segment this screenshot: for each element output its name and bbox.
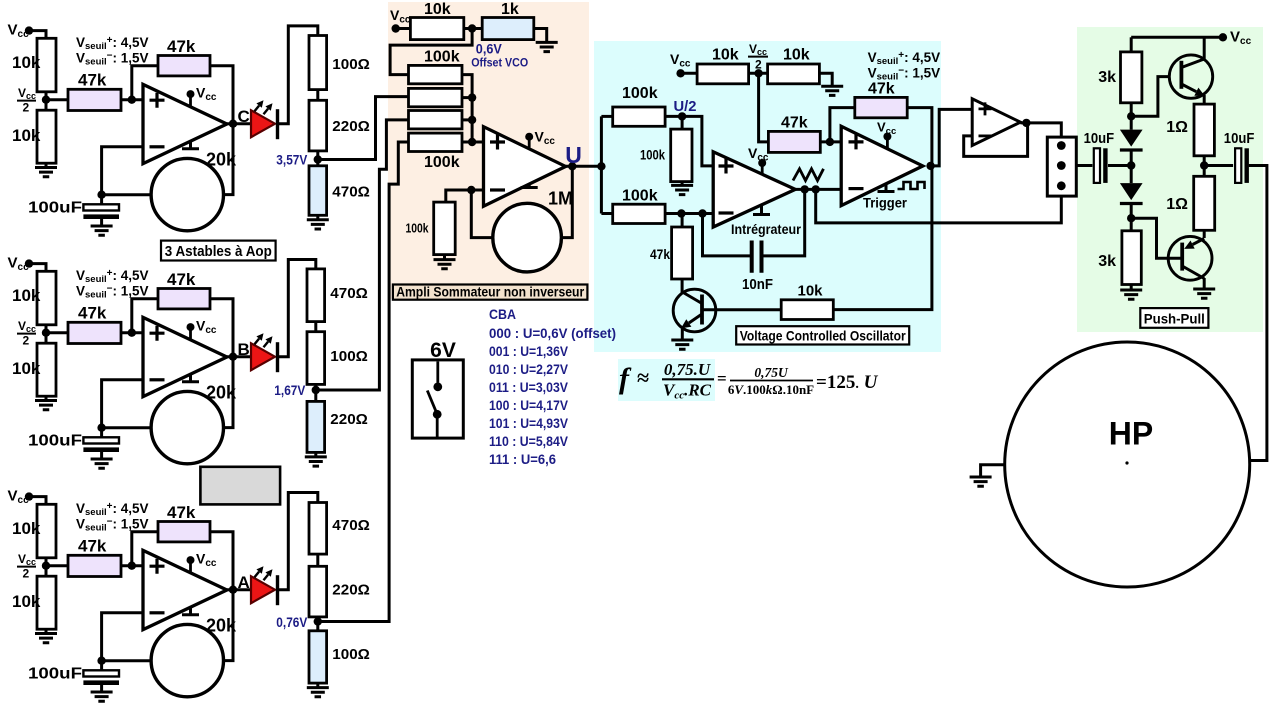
wire potentiometer to output (astable A): [224, 590, 234, 661]
svg-text:10uF: 10uF: [1084, 131, 1115, 147]
resistor 1 ohm upper: [1194, 104, 1214, 156]
wire selector to coupling capacitor: [1076, 164, 1092, 167]
selector pin triangle: [1057, 181, 1066, 190]
potentiometer 20k (astable C): [151, 158, 223, 230]
ladder wire segment (3,57V): [316, 90, 319, 101]
ground below VCO transistor: [671, 340, 693, 349]
ladder wire segment (3,57V): [316, 151, 319, 166]
wire output to LED (astable C): [227, 122, 251, 125]
svg-text:Intrégrateur: Intrégrateur: [731, 221, 801, 237]
wire U/2 to + input: [665, 116, 713, 165]
svg-text:0,75U: 0,75U: [754, 365, 789, 380]
svg-text:Offset VCO: Offset VCO: [471, 56, 528, 70]
svg-text:470Ω: 470Ω: [332, 184, 370, 201]
svg-text:Vcc: Vcc: [196, 85, 217, 104]
op-amp Vcc pin (astable C): [189, 94, 192, 106]
wire 10k to ground (trigger): [819, 73, 832, 86]
diode D1 bias: [1120, 130, 1143, 147]
VCO input node: [597, 162, 605, 170]
feedback wire to output (astable C): [210, 66, 233, 124]
svg-text:100k: 100k: [640, 147, 665, 163]
label box: 3 Astables a Aop: [161, 241, 276, 261]
ground below Q2: [1193, 289, 1215, 298]
ground below ladder (0,76V): [316, 683, 319, 688]
svg-text:3k: 3k: [1098, 253, 1116, 270]
transistor Q1 NPN (push): [1169, 55, 1212, 98]
op-amp summing amplifier: [484, 127, 566, 207]
resistor 47k hysteresis: [855, 97, 907, 117]
bias node upper dot: [1127, 112, 1135, 120]
svg-text:100 : U=4,17V: 100 : U=4,17V: [489, 398, 569, 413]
svg-text:3 Astables à Aop: 3 Astables à Aop: [165, 243, 272, 260]
resistor 470Ω (1,67V ladder): [307, 269, 325, 322]
resistor 1k offset divider: [482, 18, 534, 40]
Vcc terminal dot (astable A): [25, 492, 33, 500]
region background: Push-Pull (light green): [1077, 27, 1263, 332]
wire 1,67V to summing bus: [316, 120, 409, 390]
op-amp Vcc pin (sommateur): [528, 137, 531, 148]
Vcc terminal dot (sommateur): [392, 24, 400, 32]
svg-text:2: 2: [23, 334, 30, 348]
Vcc terminal dot (push-pull): [1219, 33, 1227, 41]
wire LED to ladder top (3,57V): [278, 26, 318, 124]
push-pull output node dot: [1200, 161, 1208, 169]
svg-text:470Ω: 470Ω: [330, 285, 368, 302]
wire output to LED (astable B): [227, 355, 251, 358]
resistor 47k input (astable C): [46, 98, 68, 101]
node U output: [568, 162, 576, 170]
diode mid node dot: [1127, 161, 1135, 169]
svg-text:=125. U: =125. U: [816, 372, 879, 393]
capacitor 100uF (astable A): [100, 661, 103, 671]
junction dot capacitor right leg: [801, 185, 809, 193]
resistor 47k VCO current leg: [681, 214, 684, 228]
wire 47k to op-amp + (astable C): [121, 98, 143, 101]
wire integrator output to selector: [816, 186, 1062, 223]
wire Vcc to divider (astable B): [29, 264, 46, 272]
ground below 100k (U/2): [681, 182, 684, 186]
op-amp integrator: [713, 152, 795, 227]
resistor 3k upper bias: [1121, 52, 1142, 103]
potentiometer 1M feedback: [493, 203, 562, 272]
feedback junction dot (sommateur): [467, 186, 475, 194]
wire - input to potentiometer 1M: [471, 190, 493, 238]
svg-text:0,75.U: 0,75.U: [664, 360, 711, 379]
node U/2: [678, 112, 686, 120]
resistor 100k to ground (sommateur): [434, 202, 456, 255]
square wave symbol: [898, 182, 925, 189]
svg-text:2: 2: [23, 101, 30, 115]
wire LED to ladder top (1,67V): [278, 260, 316, 357]
junction dot capacitor leg: [698, 209, 706, 217]
resistor 100Ω (1,67V ladder): [307, 332, 325, 385]
resistor 3k lower bias: [1122, 231, 1141, 285]
svg-text:Vseuil+: 4,5V: Vseuil+: 4,5V: [76, 35, 149, 52]
ladder wire segment (1,67V): [314, 384, 317, 401]
op-amp comparator (astable C): [143, 84, 227, 163]
svg-text:100k: 100k: [622, 85, 658, 102]
svg-text:111 : U=6,6: 111 : U=6,6: [489, 452, 556, 467]
buffer feedback wire: [964, 123, 1028, 156]
svg-text:Vcc: Vcc: [18, 552, 36, 567]
op-amp ground pin (astable B): [182, 374, 199, 382]
op-amp Vcc pin (trigger): [886, 137, 889, 149]
wire 1k to ground: [534, 29, 547, 43]
wire divider middle (astable C): [45, 92, 48, 110]
svg-text:10nF: 10nF: [742, 276, 773, 293]
op-amp output node B: [229, 353, 237, 361]
wire output node to capacitor: [1204, 164, 1233, 167]
resistor 10k lower divider (astable A): [37, 576, 56, 629]
VCO input bus: [600, 116, 603, 213]
svg-text:6V.100kΩ.10nF: 6V.100kΩ.10nF: [728, 382, 814, 397]
resistor 470Ω (3,57V ladder): [309, 166, 327, 216]
svg-text:Vseuil+: 4,5V: Vseuil+: 4,5V: [76, 268, 149, 285]
wire Q1 emitter to 1ohm: [1203, 95, 1206, 104]
svg-text:10k: 10k: [798, 283, 824, 300]
wire - input to RC node (astable B): [102, 380, 143, 428]
svg-text:0,76V: 0,76V: [276, 615, 307, 630]
svg-text:1Ω: 1Ω: [1166, 196, 1188, 213]
junction dot bus 4: [468, 138, 476, 146]
svg-text:100Ω: 100Ω: [332, 56, 370, 73]
wire 100k to - input (integrator): [665, 212, 713, 215]
triangle wave symbol: [793, 169, 824, 181]
op-amp output node C: [229, 120, 237, 128]
RC node dot (astable C): [97, 191, 105, 199]
label box: Ampli Sommateur non inverseur: [393, 285, 588, 300]
op-amp ground pin (sommateur): [521, 184, 538, 188]
svg-text:10k: 10k: [424, 1, 451, 18]
diode D2 bias: [1120, 183, 1143, 200]
svg-text:HP: HP: [1109, 416, 1153, 452]
resistor 220Ω (0,76V ladder): [309, 566, 327, 617]
feedback wire up (astable C): [132, 66, 158, 100]
summing bus wires: [462, 75, 484, 142]
wire integrator output to trigger -: [795, 188, 841, 191]
svg-text:47k: 47k: [167, 270, 196, 289]
resistor 100k summing input 2: [409, 88, 463, 106]
svg-text:10uF: 10uF: [1224, 131, 1255, 147]
op-amp ground pin (trigger): [878, 184, 895, 192]
svg-text:100k: 100k: [424, 49, 460, 66]
ladder wire segment (0,76V): [316, 554, 319, 566]
wire 47k to op-amp + (astable A): [121, 564, 143, 567]
svg-text:10k: 10k: [783, 47, 810, 64]
wire - input to 100k ground leg: [446, 190, 484, 202]
svg-text:101 : U=4,93V: 101 : U=4,93V: [489, 416, 569, 431]
wire bias node to Q2 base: [1131, 218, 1182, 258]
wire potentiometer to output (astable C): [224, 124, 234, 195]
ground below capacitor (astable A): [100, 685, 103, 692]
svg-text:001 : U=1,36V: 001 : U=1,36V: [489, 344, 569, 359]
wire transistor base to 10k: [702, 308, 781, 311]
resistor 10k VCO feedback: [781, 300, 833, 320]
resistor 470Ω (0,76V ladder): [309, 503, 327, 555]
svg-text:220Ω: 220Ω: [332, 118, 370, 135]
wire Q2 collector to ground: [1203, 278, 1206, 289]
svg-text:10k: 10k: [712, 47, 739, 64]
svg-text:110 : U=5,84V: 110 : U=5,84V: [489, 434, 569, 449]
node Vcc/2 (astable B): [42, 329, 50, 337]
svg-text:2: 2: [23, 567, 30, 581]
junction dot + input (astable C): [128, 96, 136, 104]
wire hysteresis 47k left leg: [830, 108, 855, 142]
node 0,76V: [314, 617, 322, 625]
junction dot bus 2: [468, 93, 476, 101]
ground below 3k lower: [1130, 285, 1133, 291]
svg-text:6V: 6V: [430, 339, 456, 362]
wire 47k to op-amp + (astable B): [121, 331, 143, 334]
svg-text:Vcc: Vcc: [18, 86, 36, 101]
svg-text:10k: 10k: [12, 592, 41, 611]
LED B: [251, 343, 275, 370]
wire Vcc to divider (astable A): [29, 497, 46, 505]
svg-text:220Ω: 220Ω: [332, 582, 370, 599]
potentiometer 20k (astable B): [151, 391, 223, 463]
resistor 100k VCO bottom: [613, 204, 665, 223]
svg-text:Vcc.RC: Vcc.RC: [663, 381, 712, 402]
capacitor 10uF output coupling: [1235, 148, 1241, 183]
transistor Q2 PNP (pull): [1168, 236, 1212, 280]
resistor 10k upper divider (astable C): [37, 38, 56, 92]
svg-text:470Ω: 470Ω: [332, 517, 370, 534]
wire Vcc to divider (astable C): [29, 31, 46, 39]
ground below ladder (1,67V): [314, 452, 317, 457]
svg-text:47k: 47k: [167, 37, 196, 56]
resistor 10k upper divider (astable A): [37, 504, 56, 558]
ladder wire segment (1,67V): [314, 322, 317, 332]
capacitor 10nF: [703, 214, 752, 256]
wire HP to ground: [981, 465, 1005, 477]
ground below divider (astable C): [45, 163, 48, 167]
svg-text:Trigger: Trigger: [863, 195, 907, 211]
svg-text:1,67V: 1,67V: [274, 383, 305, 398]
wire 0,76V to summing bus: [318, 142, 409, 622]
op-amp Vcc pin (integrator): [761, 163, 764, 174]
wire Vcc to Q1 collector: [1203, 37, 1206, 60]
wire Vcc to 10k (sommateur): [396, 27, 411, 30]
svg-text:000 : U=0,6V (offset): 000 : U=0,6V (offset): [489, 326, 616, 341]
svg-text:10k: 10k: [12, 126, 41, 145]
svg-text:47k: 47k: [78, 304, 107, 323]
svg-text:1M: 1M: [548, 189, 573, 209]
Vcc terminal dot (astable C): [25, 26, 33, 34]
junction dot 47k leg: [677, 209, 685, 217]
svg-text:100uF: 100uF: [28, 200, 82, 217]
resistor 100k summing input 3: [409, 111, 463, 129]
svg-text:1k: 1k: [501, 1, 519, 18]
LED A: [251, 576, 275, 603]
op-amp comparator (astable A): [143, 550, 227, 629]
LED C: [251, 110, 275, 137]
svg-text:47k: 47k: [78, 71, 107, 90]
wire 3k to diode chain: [1130, 103, 1133, 130]
svg-text:47k: 47k: [167, 503, 196, 522]
capacitor 100uF (astable C): [100, 195, 103, 205]
resistor 47k feedback (astable C): [158, 56, 210, 76]
svg-text:U/2: U/2: [674, 99, 697, 115]
feedback wire to output (astable B): [210, 299, 233, 357]
resistor 10k trigger divider left: [697, 64, 749, 84]
svg-text:1Ω: 1Ω: [1166, 119, 1188, 136]
Vcc terminal dot (trigger): [676, 69, 684, 77]
svg-text:Push-Pull: Push-Pull: [1144, 311, 1205, 327]
wire U to VCO input: [566, 165, 602, 168]
resistor 100k summing input 4: [409, 133, 463, 151]
wire potentiometer to U output: [561, 166, 572, 237]
node Vcc/2 (trigger): [754, 69, 762, 77]
region background: Ampli Sommateur (peach): [388, 2, 589, 299]
svg-text:100k: 100k: [622, 188, 658, 205]
trigger + junction dot: [826, 138, 834, 146]
svg-text:3k: 3k: [1098, 69, 1116, 86]
svg-text:Vcc: Vcc: [18, 319, 36, 334]
junction dot + input (astable A): [128, 562, 136, 570]
wire 10k to 1k: [464, 27, 482, 30]
svg-text:U: U: [565, 142, 582, 168]
wire trigger output to buffer +: [931, 109, 973, 165]
resistor 220Ω (1,67V ladder): [307, 401, 325, 452]
op-amp comparator (astable B): [143, 317, 227, 396]
svg-text:220Ω: 220Ω: [330, 411, 368, 428]
wire to 100k bottom: [601, 212, 612, 215]
op-amp ground pin (integrator): [753, 205, 770, 215]
label box: Push-Pull: [1140, 308, 1208, 328]
svg-text:0,6V: 0,6V: [476, 42, 502, 57]
switch symbol: [436, 362, 439, 383]
ground below divider (astable A): [45, 629, 48, 633]
op-amp Vcc pin (astable B): [189, 327, 192, 339]
wire buffer output to selector: [1020, 123, 1061, 146]
resistor 47k input (astable B): [46, 331, 68, 334]
svg-text:47k: 47k: [868, 81, 895, 98]
resistor 47k feedback (astable A): [158, 522, 210, 542]
ground below 10k (trigger): [821, 86, 843, 95]
resistor 47k input (astable A): [46, 564, 68, 567]
svg-text:Ampli Sommateur non inverseur: Ampli Sommateur non inverseur: [396, 285, 585, 300]
svg-text:3,57V: 3,57V: [276, 153, 307, 168]
wire node to potentiometer (astable C): [102, 193, 152, 196]
svg-text:010 : U=2,27V: 010 : U=2,27V: [489, 362, 569, 377]
op-amp trigger: [841, 126, 923, 205]
resistor 100Ω (0,76V ladder): [309, 631, 327, 683]
svg-text:=: =: [717, 369, 727, 388]
ground below ladder (3,57V): [316, 215, 319, 220]
resistor 47k trigger input: [768, 131, 820, 152]
wire Vcc/2 down to 47k input: [759, 73, 769, 142]
svg-text:47k: 47k: [78, 537, 107, 556]
RC node dot (astable B): [97, 424, 105, 432]
wire node to potentiometer (astable A): [102, 659, 152, 662]
trigger output node: [926, 162, 934, 170]
wire LED to ladder top (0,76V): [278, 493, 318, 590]
wire output to LED (astable A): [227, 588, 251, 591]
node 3,57V: [314, 155, 322, 163]
wire hysteresis 47k to output: [907, 108, 932, 166]
svg-text:100Ω: 100Ω: [330, 348, 368, 365]
svg-text:100k: 100k: [406, 221, 430, 236]
resistor 100Ω (3,57V ladder): [309, 36, 327, 90]
feedback wire up (astable B): [132, 299, 158, 333]
Vcc rail wire (push-pull): [1131, 36, 1223, 39]
resistor 100k VCO top: [613, 107, 665, 126]
svg-text:100uF: 100uF: [28, 666, 82, 683]
label box: Voltage Controlled Oscillator: [736, 326, 909, 344]
wire node to potentiometer (astable B): [102, 426, 152, 429]
svg-text:Vcc: Vcc: [196, 551, 217, 570]
svg-text:100Ω: 100Ω: [332, 646, 370, 663]
svg-text:Vseuil+: 4,5V: Vseuil+: 4,5V: [76, 501, 149, 518]
op-amp output node A: [229, 586, 237, 594]
op-amp Vcc pin (astable A): [189, 560, 192, 572]
junction dot + input (astable B): [128, 329, 136, 337]
resistor 10k upper divider (astable B): [37, 271, 56, 325]
offset node dot: [468, 24, 476, 32]
wire 10k to trigger output: [833, 166, 932, 310]
ladder wire segment (0,76V): [316, 617, 319, 631]
svg-text:CBA: CBA: [489, 307, 516, 322]
wire offset node to summing resistor 1: [390, 29, 472, 75]
feedback wire up (astable A): [132, 532, 158, 566]
ground below 100k (sommateur): [443, 255, 446, 260]
wire capacitor to diode node: [1108, 164, 1131, 167]
op-amp buffer: [972, 99, 1020, 146]
wire emitter to ground (VCO transistor): [681, 329, 684, 340]
node Vcc/2 (astable C): [42, 96, 50, 104]
wire bias node to Q1 base: [1131, 77, 1181, 117]
op-amp ground pin (astable A): [182, 607, 199, 615]
resistor 100k summing input 1: [409, 65, 463, 83]
resistor 47k feedback (astable B): [158, 289, 210, 309]
speaker HP: [1005, 342, 1250, 587]
ground below 1k: [536, 42, 558, 51]
svg-text:10k: 10k: [12, 286, 41, 305]
svg-text:47k: 47k: [781, 115, 808, 132]
node 1,67V: [312, 386, 320, 394]
svg-text:≈: ≈: [637, 365, 649, 390]
wire potentiometer to output (astable B): [224, 357, 234, 428]
wire Vcc to 10k (trigger): [681, 72, 698, 75]
wire - input to RC node (astable A): [102, 613, 143, 661]
svg-text:Voltage Controlled Oscillator: Voltage Controlled Oscillator: [740, 329, 907, 344]
capacitor 10uF input coupling: [1094, 148, 1100, 183]
wire 47k to transistor collector: [681, 279, 684, 293]
svg-text:10k: 10k: [12, 53, 41, 72]
svg-text:47k: 47k: [650, 247, 670, 262]
svg-text:10k: 10k: [12, 359, 41, 378]
selector pin output: [1057, 161, 1066, 170]
wire 3,57V to summing bus: [318, 97, 409, 160]
ground below divider (astable B): [45, 396, 48, 400]
region background: formula highlight (cyan): [618, 359, 715, 401]
resistor 1 ohm lower: [1194, 176, 1215, 230]
transistor VCO switch: [673, 289, 716, 332]
ground at HP: [970, 477, 992, 486]
wire node to 10k right (trigger): [749, 72, 768, 75]
region background: VCO (cyan): [594, 41, 941, 352]
bias node lower dot: [1127, 214, 1135, 222]
feedback wire to output (astable A): [210, 532, 233, 590]
svg-text:011 : U=3,03V: 011 : U=3,03V: [489, 380, 569, 395]
wire to 100k top: [601, 115, 612, 118]
junction dot bus 3: [468, 116, 476, 124]
resistor 100k U/2 to ground: [681, 116, 684, 129]
selector connector box: [1047, 137, 1076, 196]
svg-text:100k: 100k: [424, 154, 460, 171]
resistor 10k lower divider (astable B): [37, 343, 56, 396]
Vcc terminal dot (astable B): [25, 259, 33, 267]
